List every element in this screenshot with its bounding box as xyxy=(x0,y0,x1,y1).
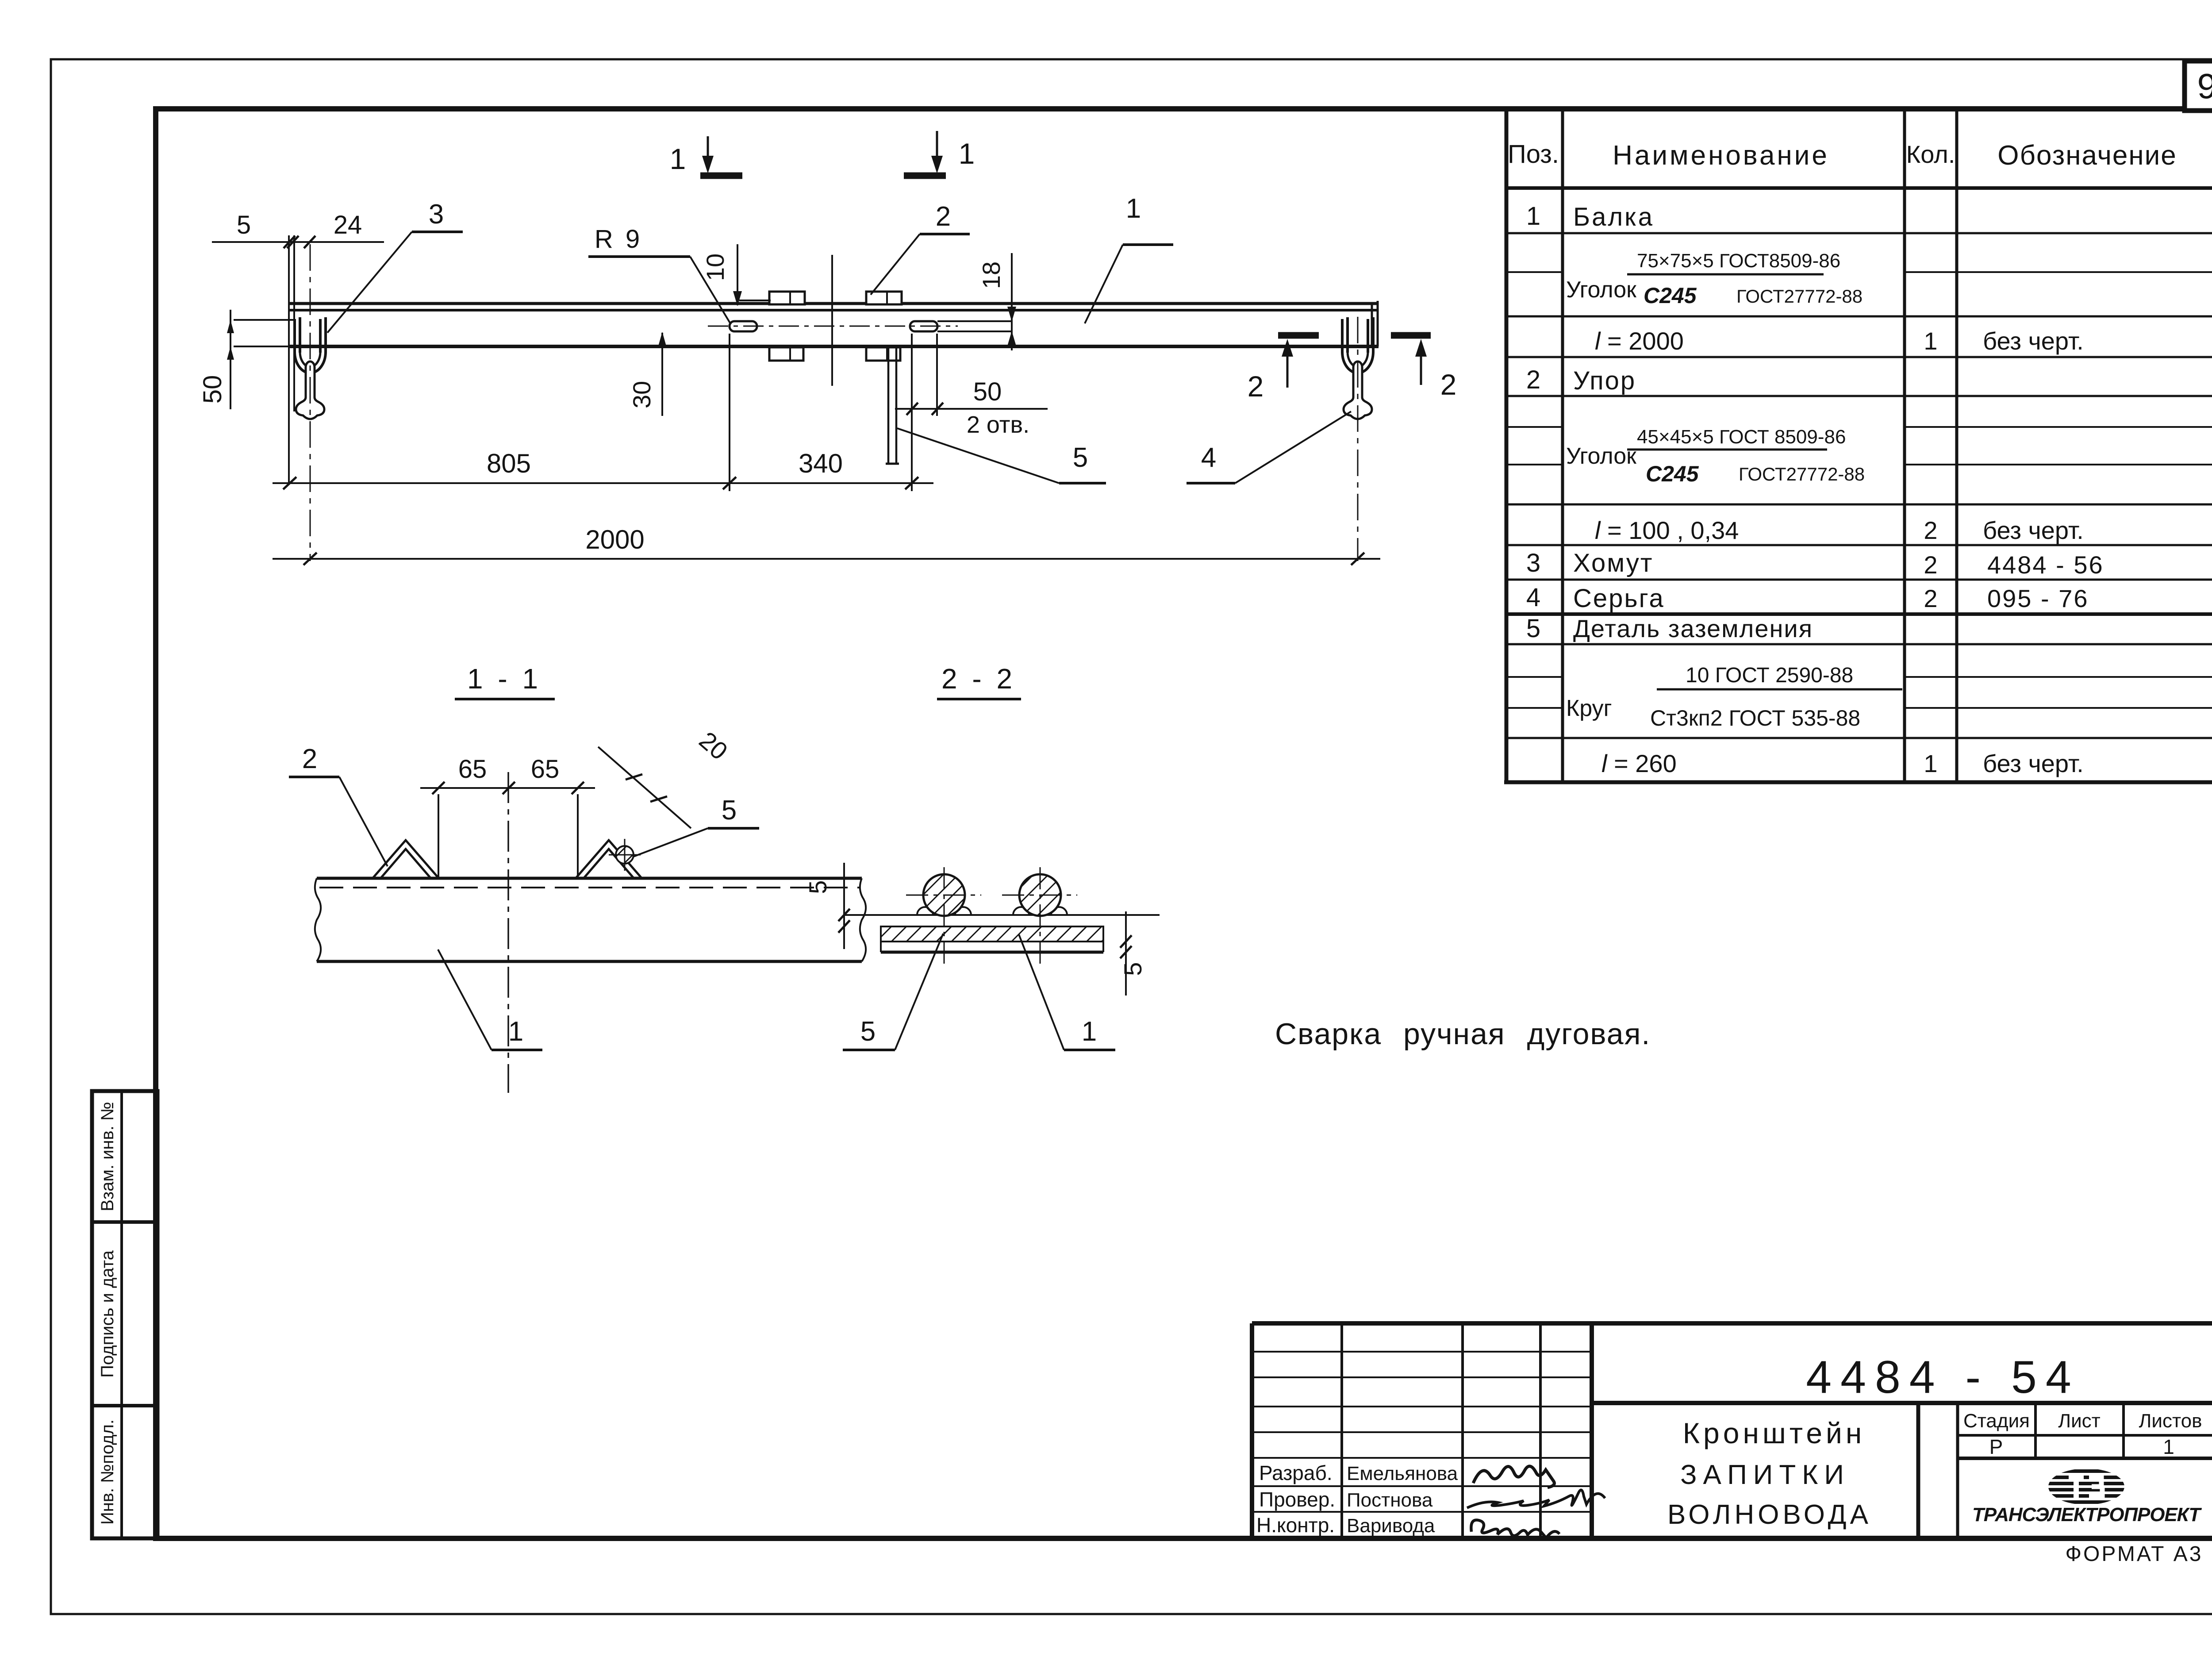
section 2-2 dim 5 left xyxy=(843,863,845,949)
svg-text:Кронштейн: Кронштейн xyxy=(1683,1417,1866,1449)
svg-text:Наименование: Наименование xyxy=(1613,140,1829,171)
svg-text:805: 805 xyxy=(487,449,531,478)
svg-text:Обозначение: Обозначение xyxy=(1997,140,2177,171)
svg-text:2000: 2000 xyxy=(585,525,644,554)
section mark 1 left: arrow xyxy=(707,136,709,163)
sub-row line Поз col 615 xyxy=(1506,271,1563,273)
page number box xyxy=(2185,61,2212,111)
upor tab upper left xyxy=(769,292,805,304)
parts table row line under Деталь заземления xyxy=(1506,643,2212,646)
title cell right divider xyxy=(1916,1403,1920,1538)
left margin strip outer box xyxy=(92,1091,157,1538)
dim 2000 line xyxy=(273,558,1380,560)
parts table row line under Хомут xyxy=(1506,579,2212,581)
row5 fraction bar xyxy=(1627,449,1827,451)
svg-text:24: 24 xyxy=(334,211,362,239)
title block row 3055 xyxy=(1252,1351,1592,1353)
svg-text:Провер.: Провер. xyxy=(1259,1488,1335,1511)
svg-text:5: 5 xyxy=(722,795,737,826)
section 1-1 ground rod circle xyxy=(616,846,634,864)
parts table column line: left edge xyxy=(1505,109,1509,782)
svg-text:1: 1 xyxy=(508,1016,523,1047)
beam bottom edge line xyxy=(290,345,1379,348)
beam right end outer edge xyxy=(1377,301,1379,346)
svg-text:Кол.: Кол. xyxy=(1906,140,1955,168)
title block column line 2 xyxy=(1461,1323,1464,1538)
title block row 3417 xyxy=(1252,1511,1592,1513)
svg-text:5: 5 xyxy=(1119,962,1147,976)
section 2-2 dim 5 right xyxy=(1125,911,1127,996)
svg-text:30: 30 xyxy=(628,381,656,408)
right hanger centerline xyxy=(1357,317,1359,561)
svg-text:2: 2 xyxy=(302,744,317,774)
svg-text:l = 100 , 0,34: l = 100 , 0,34 xyxy=(1595,516,1739,544)
title block left edge xyxy=(1250,1323,1254,1538)
title block column line 3 xyxy=(1539,1323,1542,1538)
svg-text:1: 1 xyxy=(959,137,975,170)
svg-text:4484 - 54: 4484 - 54 xyxy=(1806,1352,2080,1403)
beam top flange fold line xyxy=(290,309,1379,311)
left hanger centerline xyxy=(310,244,311,561)
svg-text:ФОРМАТ А3: ФОРМАТ А3 xyxy=(2066,1542,2203,1566)
left margin strip section divider 2 xyxy=(92,1404,157,1407)
svg-text:75×75×5 ГОСТ8509-86: 75×75×5 ГОСТ8509-86 xyxy=(1637,250,1840,272)
section 1-1 beam band bottom edge xyxy=(317,960,862,963)
svg-text:10 ГОСТ 2590-88: 10 ГОСТ 2590-88 xyxy=(1686,664,1853,687)
svg-text:18: 18 xyxy=(977,261,1005,289)
title block top edge xyxy=(1252,1321,2212,1326)
svg-text:Взам. инв. №: Взам. инв. № xyxy=(98,1102,117,1211)
left margin strip column divider xyxy=(120,1091,123,1538)
sub-row line Поз col 1050 xyxy=(1506,464,1563,465)
sub-row line Кол-Обозн col 1600 xyxy=(1905,707,2212,709)
left margin strip section divider 1 xyxy=(92,1220,157,1224)
ground rod xyxy=(887,347,890,463)
svg-text:Деталь заземления: Деталь заземления xyxy=(1573,615,1813,642)
sub-row line Кол-Обозн col 615 xyxy=(1905,271,2212,273)
left hanger U bend xyxy=(295,352,326,373)
svg-text:Уголок: Уголок xyxy=(1566,443,1636,469)
svg-text:65: 65 xyxy=(531,755,560,784)
section 1-1 hidden edge dashed xyxy=(319,887,860,888)
svg-text:4: 4 xyxy=(1526,583,1540,612)
section 2-2 top surface line xyxy=(844,914,1160,916)
beam left end second edge xyxy=(293,235,295,411)
svg-text:без черт.: без черт. xyxy=(1983,327,2084,355)
signature Емельянова xyxy=(1473,1466,1554,1488)
svg-text:2: 2 xyxy=(1526,365,1540,394)
svg-text:5: 5 xyxy=(1073,442,1088,473)
parts table row line under l=2000 xyxy=(1506,356,2212,358)
slot hole R9 xyxy=(730,321,757,331)
section 1-1 right upor angle xyxy=(576,840,641,877)
section mark 2 right: arrow xyxy=(1420,350,1422,385)
parts table row line under l=100 xyxy=(1506,544,2212,546)
svg-text:1: 1 xyxy=(1924,327,1937,355)
sub-row line Поз col 965 xyxy=(1506,426,1563,428)
beam right end edge xyxy=(1371,304,1373,346)
signature Постнова xyxy=(1467,1490,1605,1508)
row10 fraction bar xyxy=(1657,688,1902,691)
right shackle (серьга) xyxy=(1344,361,1372,419)
title block main divider xyxy=(1590,1323,1594,1538)
parts table row line above l=260 xyxy=(1506,737,2212,739)
right hanger U bend xyxy=(1342,352,1373,373)
sub-row line Кол-Обозн col 1050 xyxy=(1905,464,2212,465)
row2 fraction bar xyxy=(1627,273,1824,276)
svg-text:3: 3 xyxy=(1526,549,1540,577)
svg-text:Балка: Балка xyxy=(1573,203,1654,231)
svg-text:2: 2 xyxy=(1924,584,1937,612)
dim 805-340 line xyxy=(273,482,933,484)
section 2-2 weld bumps right circle xyxy=(1013,907,1029,915)
section 2-2 rod circle right xyxy=(1019,874,1061,916)
section 1-1 beam band left break edge xyxy=(315,878,321,961)
svg-text:1: 1 xyxy=(1126,193,1141,224)
svg-text:5: 5 xyxy=(237,211,251,239)
svg-text:2: 2 xyxy=(1924,551,1937,579)
section mark 1 right: bar xyxy=(904,173,946,179)
extension line slot2 right xyxy=(936,334,938,416)
left shackle (серьга) xyxy=(296,361,324,419)
dim 50 left: top extension xyxy=(234,319,294,321)
svg-text:Серьга: Серьга xyxy=(1573,584,1665,613)
svg-text:Варивода: Варивода xyxy=(1347,1515,1435,1537)
section 2-2 rod circle left xyxy=(923,874,965,916)
svg-text:5: 5 xyxy=(804,880,832,894)
svg-text:Инв. №подл.: Инв. №подл. xyxy=(98,1419,117,1525)
parts table row line above l=2000 xyxy=(1506,315,2212,318)
section 2-2 plate bottom edge xyxy=(881,951,1103,954)
svg-text:Лист: Лист xyxy=(2058,1410,2101,1432)
svg-text:2: 2 xyxy=(1440,368,1457,401)
svg-text:5: 5 xyxy=(860,1016,876,1047)
svg-text:45×45×5 ГОСТ 8509-86: 45×45×5 ГОСТ 8509-86 xyxy=(1637,426,1846,448)
svg-text:Ст3кп2 ГОСТ 535-88: Ст3кп2 ГОСТ 535-88 xyxy=(1650,706,1860,730)
svg-text:095 - 76: 095 - 76 xyxy=(1987,584,2089,612)
svg-text:5: 5 xyxy=(1526,614,1540,643)
dim 50 left: dim line xyxy=(230,310,231,409)
svg-text:1: 1 xyxy=(1526,202,1540,231)
extension line slot2 left xyxy=(911,334,913,491)
section mark 2 left: bar xyxy=(1278,332,1319,339)
sub-row line Поз col 1600 xyxy=(1506,707,1563,709)
section mark 2 right: bar xyxy=(1391,332,1431,339)
svg-text:92: 92 xyxy=(2197,66,2212,106)
stadia header bottom line xyxy=(1958,1434,2212,1437)
dim 5-24 line xyxy=(212,241,384,243)
parts table column line: Кол/Обозначение xyxy=(1955,109,1959,782)
title block column line 1 xyxy=(1340,1323,1343,1538)
svg-text:Упор: Упор xyxy=(1573,366,1636,395)
svg-text:Листов: Листов xyxy=(2139,1410,2202,1432)
centerline between upors xyxy=(831,255,833,386)
stadia value row bottom line xyxy=(1958,1457,2212,1460)
section 2-2 weld bumps left circle xyxy=(917,907,933,915)
svg-text:С245: С245 xyxy=(1644,283,1697,308)
svg-text:2 отв.: 2 отв. xyxy=(967,411,1029,438)
section 1-1 left upor angle xyxy=(373,840,438,877)
svg-text:50: 50 xyxy=(973,377,1002,406)
title block row 3359 xyxy=(1252,1485,1592,1487)
svg-text:4: 4 xyxy=(1201,442,1216,473)
upor tab lower right xyxy=(866,347,900,361)
section 1-1 centerline xyxy=(507,772,509,1093)
section 2-2 circle centerlines xyxy=(944,867,945,967)
right hanger (хомут) legs xyxy=(1342,317,1373,373)
svg-text:Уголок: Уголок xyxy=(1566,277,1636,303)
title block row 3295 xyxy=(1252,1457,1592,1459)
stadia table divider Лист/Листов xyxy=(2122,1403,2125,1458)
svg-text:Разраб.: Разраб. xyxy=(1259,1461,1333,1484)
svg-text:Н.контр.: Н.контр. xyxy=(1256,1514,1335,1537)
parts table row line under Упор xyxy=(1506,395,2212,397)
title block row 3113 xyxy=(1252,1376,1592,1378)
svg-text:65: 65 xyxy=(458,755,487,784)
slot tail top line xyxy=(937,320,1012,322)
parts table row line above l=100 xyxy=(1506,504,2212,506)
slot tail bottom line xyxy=(937,331,1012,332)
svg-text:l = 2000: l = 2000 xyxy=(1595,327,1684,355)
svg-text:Сварка ручная дуговая.: Сварка ручная дуговая. xyxy=(1275,1017,1651,1051)
dim 18 extension xyxy=(1011,253,1013,350)
sub-row line Кол-Обозн col 965 xyxy=(1905,426,2212,428)
doc number divider under 4484-54 xyxy=(1592,1401,2212,1405)
svg-text:4484 - 56: 4484 - 56 xyxy=(1987,551,2104,579)
svg-text:Емельянова: Емельянова xyxy=(1347,1463,1458,1484)
parts table column line: Наименование/Кол xyxy=(1903,109,1906,782)
dim 5-24 ticks xyxy=(284,236,295,248)
section mark 1 left: bar xyxy=(700,173,742,179)
logo ellipse ТЭ xyxy=(2048,1468,2124,1505)
stadia table divider Стадия/Лист xyxy=(2034,1403,2037,1458)
section mark 1 right: arrow xyxy=(936,131,938,163)
slot axis dash line xyxy=(708,326,958,327)
section 2-2 plate hatched xyxy=(881,926,1103,942)
parts table row line under Балка xyxy=(1506,232,2212,234)
sub-row line Кол-Обозн col 1530 xyxy=(1905,676,2212,678)
svg-text:l = 260: l = 260 xyxy=(1601,750,1677,777)
svg-text:без черт.: без черт. xyxy=(1983,750,2084,777)
svg-text:ГОСТ27772-88: ГОСТ27772-88 xyxy=(1736,286,1863,307)
beam left end edge xyxy=(288,235,290,483)
parts table column line: Поз/Наименование xyxy=(1561,109,1564,782)
stadia table left edge xyxy=(1956,1403,1959,1538)
svg-text:Постнова: Постнова xyxy=(1347,1489,1433,1511)
dim 10 extension xyxy=(737,244,738,305)
svg-text:ТРАНСЭЛЕКТРОПРОЕКТ: ТРАНСЭЛЕКТРОПРОЕКТ xyxy=(1972,1504,2202,1526)
dim 30 line xyxy=(661,333,663,416)
section 1-1 extension left xyxy=(438,794,439,877)
left hanger (хомут) legs xyxy=(295,317,326,373)
extension line slot1 left xyxy=(729,334,730,491)
svg-text:ГОСТ27772-88: ГОСТ27772-88 xyxy=(1739,464,1865,484)
svg-text:Поз.: Поз. xyxy=(1508,140,1559,169)
inner drawing frame xyxy=(156,109,2212,1538)
svg-text:1: 1 xyxy=(1082,1016,1097,1047)
beam top flange edge line xyxy=(290,302,1379,305)
svg-text:С245: С245 xyxy=(1646,461,1699,486)
svg-text:3: 3 xyxy=(429,199,444,230)
section 1-1 extension right xyxy=(577,794,579,877)
svg-text:340: 340 xyxy=(799,449,843,478)
svg-text:Круг: Круг xyxy=(1566,696,1612,721)
parts table row line under Серьга (thick) xyxy=(1506,612,2212,616)
parts table bottom edge xyxy=(1504,780,2212,784)
svg-text:1 - 1: 1 - 1 xyxy=(467,663,541,695)
svg-text:1: 1 xyxy=(1924,750,1937,777)
svg-text:2: 2 xyxy=(1924,516,1937,544)
svg-text:1: 1 xyxy=(2163,1435,2174,1458)
title block row 3179 xyxy=(1252,1406,1592,1407)
parts table header bottom line xyxy=(1506,186,2212,190)
svg-text:1: 1 xyxy=(670,142,686,175)
dim 50 2otv: dim line xyxy=(895,408,1048,410)
section 1-1 dim 65-65 line xyxy=(420,787,595,789)
svg-text:2: 2 xyxy=(1248,370,1264,403)
svg-text:Хомут: Хомут xyxy=(1573,549,1653,577)
svg-text:Р: Р xyxy=(1989,1435,2003,1458)
svg-text:Подпись и дата: Подпись и дата xyxy=(98,1250,117,1377)
svg-text:R 9: R 9 xyxy=(595,225,642,254)
section 1-1 beam band top edge xyxy=(317,877,862,880)
svg-text:Стадия: Стадия xyxy=(1963,1410,2030,1432)
svg-text:2: 2 xyxy=(936,201,951,232)
title block row 3237 xyxy=(1252,1431,1592,1433)
svg-text:10: 10 xyxy=(701,254,729,281)
sub-row line Поз col 1530 xyxy=(1506,676,1563,678)
section mark 2 left: arrow xyxy=(1286,350,1289,388)
section 1-1 dim 20 diagonal xyxy=(598,747,691,828)
upor tab upper right xyxy=(866,292,902,304)
dim 50 left: bottom extension xyxy=(234,346,290,347)
svg-text:2 - 2: 2 - 2 xyxy=(941,663,1016,695)
signature Варивода xyxy=(1471,1520,1559,1538)
svg-text:50: 50 xyxy=(198,375,227,404)
upor tab lower left xyxy=(769,347,803,361)
svg-text:ВОЛНОВОДА: ВОЛНОВОДА xyxy=(1667,1499,1872,1530)
slot hole second xyxy=(910,321,937,331)
svg-text:ЗАПИТКИ: ЗАПИТКИ xyxy=(1680,1460,1850,1490)
svg-text:без черт.: без черт. xyxy=(1983,516,2084,544)
section 1-1 beam band right break edge xyxy=(860,878,866,961)
